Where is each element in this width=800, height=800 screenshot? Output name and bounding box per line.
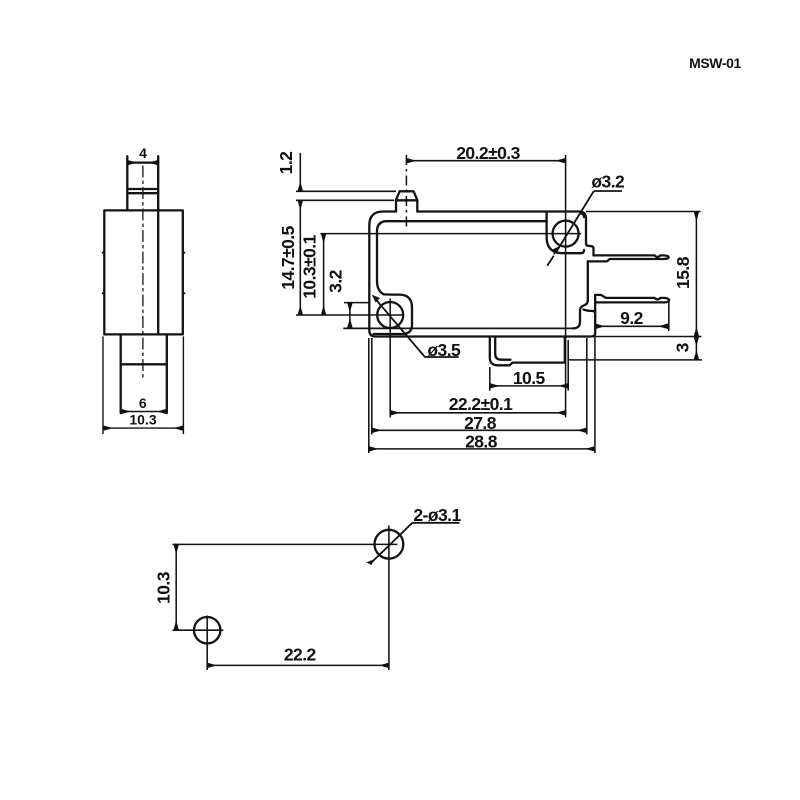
dim 15.8 <box>695 212 697 337</box>
svg-text:4: 4 <box>139 145 147 161</box>
svg-text:27.8: 27.8 <box>464 413 497 433</box>
plunger internal line <box>396 199 417 201</box>
pedestal step below pin1 <box>588 260 594 262</box>
protrusion bottom ext right (3) <box>568 359 702 361</box>
side view edge notch marks <box>103 252 185 295</box>
svg-text:2-ø3.1: 2-ø3.1 <box>413 505 461 525</box>
leader ø3.5 <box>376 300 458 357</box>
horizontal line through A <box>173 543 398 545</box>
plunger centerline dash <box>405 155 407 228</box>
dim 27.8 <box>372 429 587 431</box>
svg-text:ø3.5: ø3.5 <box>427 340 461 360</box>
plunger (main view) <box>396 191 417 211</box>
horizontal crosshair B <box>173 629 224 631</box>
pin 2 (middle terminal) <box>595 295 669 303</box>
pin 1 (top terminal) <box>594 255 669 261</box>
svg-text:3.2: 3.2 <box>326 269 346 292</box>
svg-text:10.5: 10.5 <box>513 368 546 388</box>
pin2 tip ext down (9.2) <box>668 301 670 331</box>
body outer outline <box>369 212 584 337</box>
dim 28.8 <box>369 448 595 450</box>
hole2 horizontal crosshair + 14.7/10.3 ext <box>296 314 404 316</box>
svg-text:10.3: 10.3 <box>129 412 156 428</box>
svg-text:28.8: 28.8 <box>465 431 498 451</box>
ext lines plunger top / inner (1.2 refs) <box>296 191 396 200</box>
svg-text:3: 3 <box>673 342 693 352</box>
dim 1.2 (upper segment) <box>299 153 301 191</box>
leader ø3.2 <box>547 191 594 266</box>
dim 10.5 <box>490 385 568 387</box>
leader 2-ø3.1 <box>372 523 460 562</box>
side view plunger top line <box>127 161 158 163</box>
dim 9.2 <box>595 325 668 327</box>
side view body outline <box>104 210 183 334</box>
vertical crosshair A down to dim <box>388 526 390 671</box>
dim 3 <box>695 337 697 360</box>
dim 10.3 (bottom drawing) <box>175 544 177 630</box>
top-right mounting hole circle <box>553 221 579 247</box>
bottom-left mounting hole circle <box>377 302 403 328</box>
side view centerline <box>142 166 144 377</box>
vertical crosshair B down to dim <box>206 616 208 671</box>
ext line 3.2 top <box>344 302 370 304</box>
jog connector to outer lower right edge <box>583 309 595 314</box>
hole1 vertical ext (20.2/22.2) <box>565 155 567 417</box>
svg-text:10.3±0.1: 10.3±0.1 <box>300 234 320 298</box>
svg-text:MSW-01: MSW-01 <box>689 55 741 71</box>
ext for 10.5 <box>490 340 568 391</box>
svg-text:6: 6 <box>139 395 147 411</box>
seam line (inner bottom) <box>344 327 573 329</box>
side view plunger sides <box>127 156 158 210</box>
body outer top edge right of plunger <box>417 212 593 256</box>
dim 20.2±0.3 <box>406 160 565 162</box>
side view internal vertical line <box>157 210 159 334</box>
side view plunger double lines <box>127 189 158 193</box>
hole1 horizontal crosshair + 10.3 ext line <box>320 233 581 235</box>
side view dim texts <box>129 145 156 428</box>
dim 22.2 (bottom drawing) <box>207 664 389 666</box>
svg-text:14.7±0.5: 14.7±0.5 <box>278 225 298 289</box>
side view lower internal line <box>121 363 167 365</box>
svg-text:ø3.2: ø3.2 <box>591 172 625 192</box>
svg-text:10.3: 10.3 <box>154 571 174 604</box>
hole2 vertical ext (22.2) <box>389 299 391 418</box>
bottom protrusion outer <box>490 337 565 366</box>
svg-text:22.2: 22.2 <box>284 644 317 664</box>
ext for 27.8 / 28.8 left <box>369 338 372 453</box>
dim 6 line <box>121 411 167 413</box>
svg-text:1.2: 1.2 <box>276 151 296 174</box>
bottom edge ext to right (15.8/3) <box>595 336 701 338</box>
svg-text:15.8: 15.8 <box>673 256 693 289</box>
bottom-left boss <box>374 294 413 334</box>
ext for 27.8 / 28.8 right <box>587 337 595 454</box>
svg-text:9.2: 9.2 <box>620 308 643 328</box>
mounting hole circle A (top right) <box>375 530 404 559</box>
svg-text:20.2±0.3: 20.2±0.3 <box>456 143 520 163</box>
side view ext lines for 10.3 <box>103 337 183 434</box>
right edge below pin1 with jog <box>573 261 588 328</box>
svg-text:22.2±0.1: 22.2±0.1 <box>449 394 513 414</box>
top edge ext to right (15.8) <box>586 211 701 213</box>
dim 10.3±0.1 <box>323 234 325 315</box>
body inner outline (top/left) <box>377 212 547 294</box>
outer lower right edge <box>584 295 595 337</box>
boss around top hole <box>547 214 584 254</box>
dim 10.3 line (side view) <box>103 427 183 429</box>
dim 3.2 <box>349 303 351 328</box>
dim 14.7 line (and 1.2 lower arrow) <box>299 200 301 315</box>
mounting hole circle B (bottom left) <box>194 617 220 643</box>
dim 22.2±0.1 <box>390 412 565 414</box>
side view lower narrow section <box>121 334 167 413</box>
dim 4 arrows <box>127 162 158 164</box>
main view dimension texts <box>276 143 693 451</box>
bottom protrusion inner line <box>495 337 510 360</box>
